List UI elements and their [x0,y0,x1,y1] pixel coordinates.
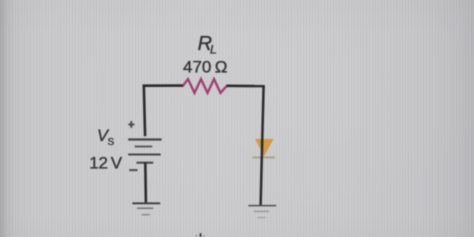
plus sign of battery [128,121,134,128]
svg-text:12 V: 12 V [89,153,122,172]
ground right bar 1 [248,205,276,207]
battery VS plate 3 (long) [128,153,161,155]
wire left vertical upper [144,85,145,137]
ground left bar 3 [142,214,150,216]
ground left bar 2 [137,207,153,209]
label RL [198,33,217,57]
ground right bar 3 [257,217,265,219]
diode D1 anode triangle [255,139,274,157]
battery VS plate 1 (long, +) [128,138,161,140]
wire right vertical [261,86,264,205]
minus sign of battery [129,169,137,171]
ground right bar 2 [254,210,269,212]
wire left vertical lower [144,163,147,203]
battery VS plate 4 (short, -) [137,162,154,164]
svg-text:470 Ω: 470 Ω [183,57,227,76]
ground left bar 1 [132,202,160,204]
wire top-right segment [227,85,265,88]
svg-text:S: S [108,137,115,148]
label 470 ohm [183,57,227,76]
stray mark at bottom edge [196,233,205,237]
resistor RL [183,79,227,93]
label 12 V [89,153,122,172]
label VS [97,127,115,148]
svg-text:L: L [210,42,217,56]
wire top-left segment [143,84,184,87]
battery VS plate 2 (short) [135,146,153,148]
diode D1 cathode bar [253,157,275,159]
